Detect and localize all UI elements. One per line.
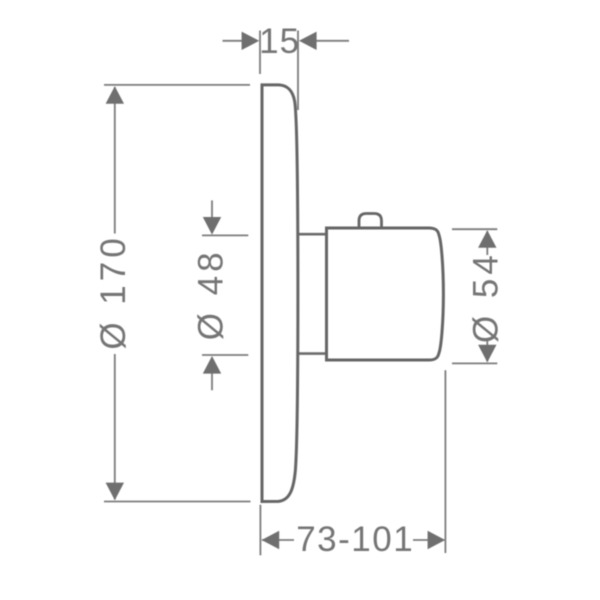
- dimension 15: left leader line: [223, 40, 245, 42]
- dimension D48: bottom leader line: [211, 372, 213, 390]
- dimension 73-101: dimension line: [262, 539, 444, 541]
- svg-text:Ø 54: Ø 54: [467, 251, 506, 343]
- dimension 15: right arrowhead: [299, 32, 317, 50]
- svg-text:15: 15: [259, 22, 300, 61]
- dimension D54: top arrowhead: [478, 230, 496, 248]
- dimension D48: bottom arrowhead: [203, 356, 221, 374]
- valve neck bottom line: [296, 352, 326, 355]
- dimension 73-101: label background: [294, 525, 413, 553]
- dimension D170: top extension line: [104, 84, 250, 86]
- dimension 15: left extension line: [259, 31, 261, 75]
- dimension D54: bottom extension line: [452, 362, 497, 364]
- dimension D170: bottom arrowhead: [106, 483, 124, 501]
- svg-text:Ø 170: Ø 170: [94, 234, 133, 349]
- dimension D48: top arrowhead: [203, 217, 221, 235]
- valve neck top line: [296, 233, 326, 236]
- svg-text:Ø 48: Ø 48: [192, 248, 231, 340]
- dimension D48: bottom extension line: [202, 354, 248, 356]
- knob top tab: [359, 214, 382, 230]
- thermostat knob body: [327, 228, 444, 360]
- dimension D48: top leader line: [211, 200, 213, 219]
- dimension D170: dimension line: [114, 87, 116, 500]
- dimension 73-101: right arrowhead: [428, 531, 446, 549]
- dimension D54: top extension line: [452, 228, 497, 230]
- dimension D48: top extension line: [202, 234, 248, 236]
- dimension 73-101: left arrowhead: [262, 531, 280, 549]
- dimension 15: right leader line: [314, 40, 349, 42]
- escutcheon plate outline: [262, 85, 298, 502]
- dimension D170: top arrowhead: [106, 86, 124, 104]
- dimension D170: label background: [96, 234, 129, 355]
- svg-text:73-101: 73-101: [296, 520, 414, 559]
- dimension D54: bottom arrowhead: [478, 345, 496, 363]
- dimension D170: bottom extension line: [104, 501, 251, 503]
- dimension 15: left arrowhead: [242, 32, 260, 50]
- dimension D54: dimension line: [486, 231, 488, 362]
- dimension D54: label background: [471, 255, 503, 341]
- dimension 15: right extension line: [297, 31, 299, 111]
- dimension 73-101: right extension line: [444, 370, 446, 553]
- dimension 73-101: left extension line: [259, 505, 261, 556]
